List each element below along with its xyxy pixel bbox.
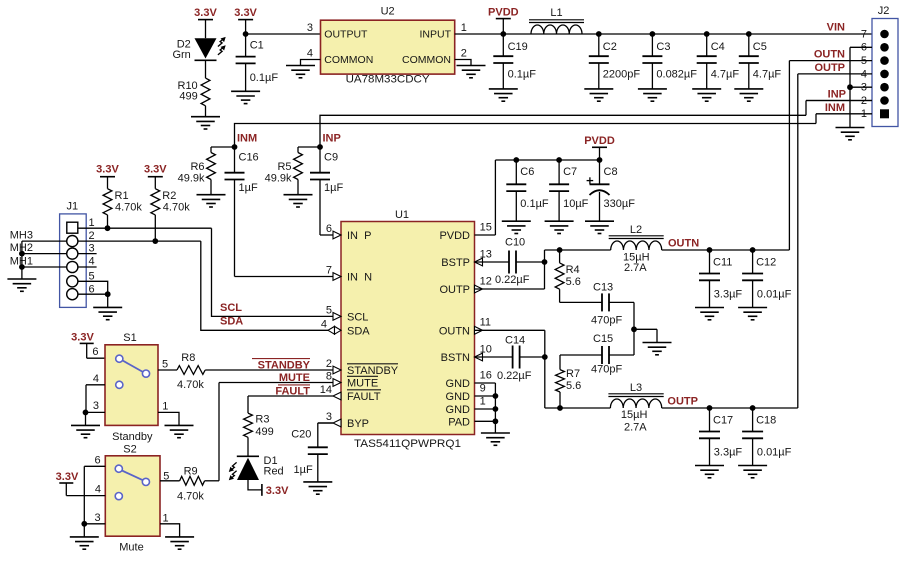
svg-text:1: 1 <box>163 513 169 525</box>
svg-text:C11: C11 <box>713 256 732 268</box>
svg-text:OUTN: OUTN <box>439 325 470 337</box>
svg-text:3.3V: 3.3V <box>266 485 289 497</box>
svg-text:3.3V: 3.3V <box>71 331 94 343</box>
svg-text:499: 499 <box>179 90 197 102</box>
svg-text:5: 5 <box>326 304 332 316</box>
svg-text:PAD: PAD <box>448 416 470 428</box>
svg-text:0.1µF: 0.1µF <box>520 198 549 210</box>
svg-text:7: 7 <box>326 265 332 277</box>
svg-text:3.3µF: 3.3µF <box>714 288 743 300</box>
svg-text:2.7A: 2.7A <box>624 422 647 434</box>
svg-text:0.01µF: 0.01µF <box>757 288 792 300</box>
svg-text:INM: INM <box>825 102 845 114</box>
svg-text:4.70k: 4.70k <box>177 379 204 391</box>
svg-text:C5: C5 <box>753 41 767 53</box>
svg-text:PVDD: PVDD <box>584 135 615 147</box>
svg-text:470pF: 470pF <box>591 364 622 376</box>
svg-text:2: 2 <box>89 230 95 242</box>
svg-text:470pF: 470pF <box>591 314 622 326</box>
svg-text:1: 1 <box>461 22 467 34</box>
svg-text:4.7µF: 4.7µF <box>711 68 740 80</box>
svg-text:4.70k: 4.70k <box>163 202 190 214</box>
svg-text:12: 12 <box>480 275 492 287</box>
svg-text:BSTN: BSTN <box>441 352 470 364</box>
svg-text:16: 16 <box>480 369 492 381</box>
svg-text:INP: INP <box>828 89 846 101</box>
svg-text:OUTN: OUTN <box>814 49 845 61</box>
svg-text:10: 10 <box>480 343 492 355</box>
svg-text:FAULT: FAULT <box>275 386 310 398</box>
svg-text:4.7µF: 4.7µF <box>753 68 782 80</box>
svg-text:C13: C13 <box>593 281 613 293</box>
svg-text:1µF: 1µF <box>294 464 313 476</box>
svg-text:J1: J1 <box>66 201 78 213</box>
svg-text:9: 9 <box>480 382 486 394</box>
svg-text:3.3V: 3.3V <box>56 471 79 483</box>
svg-text:3.3V: 3.3V <box>144 164 167 176</box>
svg-text:0.082µF: 0.082µF <box>656 68 697 80</box>
svg-text:C1: C1 <box>250 40 264 52</box>
svg-text:C12: C12 <box>756 256 776 268</box>
svg-text:11: 11 <box>480 317 491 329</box>
svg-text:C14: C14 <box>505 335 525 347</box>
svg-text:SDA: SDA <box>220 315 243 327</box>
svg-text:C7: C7 <box>563 166 577 178</box>
svg-text:7: 7 <box>861 28 867 40</box>
svg-text:3: 3 <box>89 243 95 255</box>
svg-text:4: 4 <box>95 484 101 496</box>
svg-text:VIN: VIN <box>827 22 845 34</box>
svg-text:COMMON: COMMON <box>402 54 451 66</box>
svg-text:499: 499 <box>255 426 273 438</box>
svg-text:R2: R2 <box>162 190 176 202</box>
svg-text:OUTP: OUTP <box>667 395 698 407</box>
svg-text:STANDBY: STANDBY <box>258 360 311 372</box>
svg-text:R1: R1 <box>115 190 129 202</box>
svg-text:BYP: BYP <box>347 418 369 430</box>
svg-text:3: 3 <box>93 400 99 412</box>
svg-text:IN P: IN P <box>347 230 371 242</box>
svg-text:U1: U1 <box>395 209 409 221</box>
svg-text:4.70k: 4.70k <box>177 490 204 502</box>
svg-text:Mute: Mute <box>119 542 143 554</box>
svg-text:MUTE: MUTE <box>279 372 310 384</box>
svg-text:R5: R5 <box>277 161 291 173</box>
svg-text:1: 1 <box>89 217 95 229</box>
svg-text:UA78M33CDCY: UA78M33CDCY <box>346 74 431 86</box>
svg-text:4.70k: 4.70k <box>115 202 142 214</box>
svg-text:INM: INM <box>237 133 257 145</box>
svg-text:SDA: SDA <box>347 325 370 337</box>
svg-text:3: 3 <box>94 512 100 524</box>
svg-text:4: 4 <box>321 318 327 330</box>
svg-text:5.6: 5.6 <box>566 380 581 392</box>
svg-text:6: 6 <box>326 223 332 235</box>
svg-text:U2: U2 <box>381 5 395 17</box>
svg-text:4: 4 <box>93 373 99 385</box>
svg-text:OUTP: OUTP <box>439 284 470 296</box>
svg-text:1µF: 1µF <box>324 182 343 194</box>
svg-text:R6: R6 <box>190 161 204 173</box>
svg-text:L3: L3 <box>630 382 642 394</box>
svg-text:INPUT: INPUT <box>420 29 452 41</box>
svg-text:INP: INP <box>323 133 341 145</box>
svg-text:6: 6 <box>92 346 98 358</box>
svg-text:PVDD: PVDD <box>439 230 470 242</box>
svg-text:2: 2 <box>461 47 467 59</box>
svg-text:SCL: SCL <box>220 302 242 314</box>
svg-text:C2: C2 <box>603 41 617 53</box>
svg-text:OUTPUT: OUTPUT <box>324 29 368 41</box>
svg-text:STANDBY: STANDBY <box>347 365 399 377</box>
svg-text:0.1µF: 0.1µF <box>508 68 537 80</box>
svg-text:2: 2 <box>326 358 332 370</box>
svg-text:PVDD: PVDD <box>488 7 519 19</box>
svg-text:49.9k: 49.9k <box>178 173 205 185</box>
svg-text:C16: C16 <box>239 152 259 164</box>
svg-text:C20: C20 <box>291 428 311 440</box>
svg-text:3.3V: 3.3V <box>194 7 217 19</box>
svg-text:L2: L2 <box>630 224 642 236</box>
svg-text:0.22µF: 0.22µF <box>495 274 530 286</box>
svg-text:TAS5411QPWPRQ1: TAS5411QPWPRQ1 <box>354 438 461 450</box>
svg-text:0.1µF: 0.1µF <box>250 72 279 84</box>
svg-text:C15: C15 <box>593 333 613 345</box>
svg-text:C18: C18 <box>756 414 776 426</box>
svg-text:C19: C19 <box>508 41 528 53</box>
svg-text:1: 1 <box>162 400 168 412</box>
svg-text:6: 6 <box>94 455 100 467</box>
svg-text:Standby: Standby <box>112 431 153 443</box>
svg-text:C8: C8 <box>604 166 618 178</box>
svg-text:IN N: IN N <box>347 272 372 284</box>
svg-text:3: 3 <box>326 411 332 423</box>
svg-text:4: 4 <box>89 256 95 268</box>
svg-text:15: 15 <box>480 221 492 233</box>
svg-text:R4: R4 <box>566 264 580 276</box>
svg-text:GND: GND <box>446 404 471 416</box>
svg-text:2.7A: 2.7A <box>624 262 647 274</box>
svg-text:GND: GND <box>446 378 471 390</box>
svg-text:3.3µF: 3.3µF <box>714 446 743 458</box>
svg-text:14: 14 <box>320 384 332 396</box>
svg-text:1: 1 <box>480 395 486 407</box>
svg-text:0.01µF: 0.01µF <box>757 446 792 458</box>
svg-text:10µF: 10µF <box>563 198 589 210</box>
svg-text:COMMON: COMMON <box>324 54 373 66</box>
svg-text:GND: GND <box>446 391 471 403</box>
svg-text:L1: L1 <box>550 7 562 19</box>
svg-text:MH3: MH3 <box>10 230 33 242</box>
svg-text:C6: C6 <box>520 166 534 178</box>
svg-text:2200pF: 2200pF <box>603 68 641 80</box>
svg-text:R3: R3 <box>255 413 269 425</box>
svg-text:Grn: Grn <box>172 49 190 61</box>
svg-text:0.22µF: 0.22µF <box>497 370 532 382</box>
svg-text:C3: C3 <box>656 41 670 53</box>
svg-text:R7: R7 <box>566 368 580 380</box>
svg-text:SCL: SCL <box>347 311 368 323</box>
svg-text:5: 5 <box>162 358 168 370</box>
svg-text:S2: S2 <box>123 444 136 456</box>
svg-text:3: 3 <box>307 22 313 34</box>
svg-text:S1: S1 <box>123 332 136 344</box>
svg-text:13: 13 <box>480 248 492 260</box>
svg-text:3.3V: 3.3V <box>234 7 257 19</box>
svg-text:8: 8 <box>326 371 332 383</box>
svg-text:5.6: 5.6 <box>566 276 581 288</box>
svg-text:FAULT: FAULT <box>347 391 381 403</box>
svg-text:1µF: 1µF <box>239 182 258 194</box>
svg-text:C17: C17 <box>713 414 733 426</box>
svg-text:OUTN: OUTN <box>668 237 699 249</box>
svg-text:R9: R9 <box>184 466 198 478</box>
svg-text:C10: C10 <box>505 237 525 249</box>
svg-text:Red: Red <box>264 465 284 477</box>
svg-text:BSTP: BSTP <box>441 257 470 269</box>
svg-text:C9: C9 <box>324 152 338 164</box>
svg-text:MUTE: MUTE <box>347 378 378 390</box>
svg-text:49.9k: 49.9k <box>265 173 292 185</box>
svg-text:C4: C4 <box>711 41 725 53</box>
svg-text:J2: J2 <box>878 5 890 17</box>
svg-text:OUTP: OUTP <box>814 62 845 74</box>
svg-text:4: 4 <box>307 47 313 59</box>
svg-text:15µH: 15µH <box>621 409 648 421</box>
svg-text:R8: R8 <box>181 352 195 364</box>
svg-text:330µF: 330µF <box>604 198 636 210</box>
svg-text:3.3V: 3.3V <box>96 164 119 176</box>
